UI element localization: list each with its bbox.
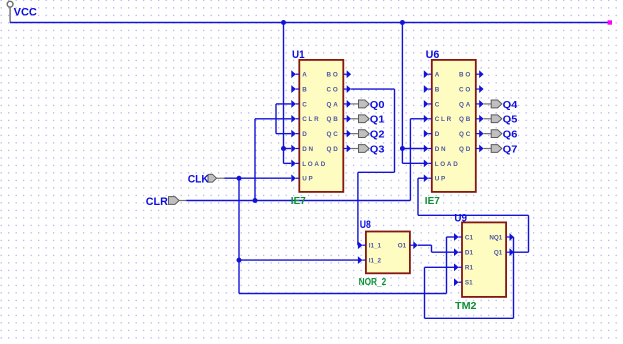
node Q0 terminal tag [351,100,369,108]
U6 pin DN [424,145,448,153]
svg-text:IE7: IE7 [425,196,440,207]
svg-text:U8: U8 [360,219,371,231]
svg-text:CLK: CLK [188,174,209,186]
node Q4 terminal tag [484,100,502,108]
U1 pin LOAD [291,159,327,167]
U6 pin C [424,100,441,108]
U1 pin QA [327,100,352,108]
svg-text:I1_2: I1_2 [369,258,382,265]
svg-text:Q0: Q0 [370,99,385,111]
wire VCC to U1 LOAD drop [283,149,285,164]
svg-text:LOAD: LOAD [302,161,327,168]
U6 pin LOAD [424,159,460,167]
wire CLR to U1 CLR stub [255,118,291,120]
node Q3 terminal tag [351,145,369,153]
svg-text:S1: S1 [465,280,473,287]
U9 pin Q1 [494,248,514,256]
U9 pin S1 [454,278,473,286]
wire VCC drop to U6 DN [401,23,403,149]
junction CLK to U8 I1_2 node [237,258,242,263]
U6 pin CO [459,85,484,93]
wire VCC to U6 LOAD stub [402,162,424,164]
wire CLR horizontal run [186,200,410,202]
svg-text:QA: QA [459,101,472,108]
svg-text:DN: DN [302,146,315,153]
U8 pin I1_2 [358,256,382,264]
svg-text:C: C [435,101,441,108]
U9 pin C1 [454,233,473,241]
junction VCC rail to U6 branch [400,20,405,25]
node Q7 terminal tag [484,145,502,153]
wire U9 Q1 out run [514,251,529,253]
U8 pin O1 [398,241,418,249]
label Q0 [370,99,385,111]
label Q6 [503,129,518,141]
svg-text:IE7: IE7 [291,196,306,207]
svg-text:QD: QD [459,146,472,153]
wire VCC to U6 DN stub [402,148,424,150]
U6 pin UP [424,174,447,182]
wire to U6 UP stub [418,177,424,179]
label VCC [14,7,37,19]
U1 pin D [291,130,308,138]
junction VCC rail to U1 branch [281,20,286,25]
svg-text:C: C [302,101,308,108]
label U8 [360,219,371,231]
svg-text:D: D [435,131,441,138]
wire U1 D stub [276,133,291,135]
U6 pin QC [459,130,484,138]
U6 pin QB [459,115,484,123]
value IE7 (U1) [291,196,306,207]
U6 pin QA [459,100,484,108]
U1 pin QB [327,115,352,123]
label Q2 [370,129,385,141]
wire U1 C-D tie vertical [275,104,277,134]
wire U1 CO out run [351,88,394,90]
U9 pin R1 [454,263,473,271]
wire CLR to U6 CLR stub [410,118,424,120]
wire to U9 R1 stub [425,266,455,268]
wire CLK vertical drop [238,178,240,293]
IC body U1 [299,60,343,192]
node Q2 terminal tag [351,130,369,138]
node Q5 terminal tag [484,115,502,123]
svg-text:I1_1: I1_1 [369,243,382,250]
svg-text:DN: DN [435,146,448,153]
svg-text:A: A [302,72,308,79]
wire O1-D1 jog [431,245,433,252]
U1 pin CO [327,85,352,93]
svg-text:BO: BO [459,72,472,79]
label Q1 [370,114,385,126]
U6 pin QD [459,145,484,153]
wire VCC to U6 LOAD drop [401,149,403,164]
wire CLK to U1 UP [224,177,291,179]
wire VCC rail [10,22,608,24]
value TM2 [455,301,477,312]
U1 pin DN [291,145,315,153]
svg-text:QB: QB [327,116,340,123]
svg-text:CO: CO [327,86,340,93]
U1 pin CLR [291,115,320,123]
svg-text:Q1: Q1 [494,250,503,257]
svg-text:NQ1: NQ1 [489,234,502,241]
input terminal CLK [208,174,225,182]
label U9 [454,213,467,225]
input terminal CLR [169,197,187,205]
svg-text:Q5: Q5 [503,114,518,126]
label Q3 [370,143,385,155]
label U1 [292,49,305,61]
svg-text:QB: QB [459,116,472,123]
label Q7 [503,143,518,155]
svg-text:CLR: CLR [146,196,168,208]
IC body U9 [462,222,506,297]
svg-text:QD: QD [327,146,340,153]
svg-text:U9: U9 [454,213,467,225]
svg-text:QC: QC [327,131,340,138]
label Q4 [503,99,518,111]
wire CLK riser to U9 C1 [446,237,448,294]
wire endpoint marker (dangling VCC rail end) [608,20,612,24]
svg-text:QA: QA [327,101,340,108]
wire CLK to U9 C1 stub [447,236,455,238]
wire CO net drop to U8 I1_1 [357,172,359,245]
wire U8 O1 out run [418,244,432,246]
svg-text:LOAD: LOAD [435,161,460,168]
U1 pin B [291,85,308,93]
wire NQ1 bottom run [425,317,514,319]
svg-text:QC: QC [459,131,472,138]
label Q5 [503,114,518,126]
U6 pin BO [459,70,484,78]
wire VCC to U1 LOAD stub [284,162,292,164]
svg-text:A: A [435,72,441,79]
svg-text:TM2: TM2 [455,301,477,312]
svg-text:O1: O1 [398,243,407,250]
svg-text:Q4: Q4 [503,99,518,111]
U6 pin A [424,70,441,78]
svg-text:C1: C1 [465,234,474,241]
svg-text:Q6: Q6 [503,129,518,141]
wire CO net left run [358,171,395,173]
svg-text:NOR_2: NOR_2 [359,277,387,288]
node Q1 terminal tag [351,115,369,123]
label U6 [426,49,440,61]
svg-text:CLR: CLR [302,116,320,123]
U1 pin UP [291,174,314,182]
svg-text:UP: UP [435,176,447,183]
junction U1 DN node [281,146,286,151]
wire VCC to U1 DN stub [284,148,292,150]
wire CLK to U8 I1_2 [239,259,358,261]
label CLR [146,196,168,208]
label CLK [188,174,209,186]
svg-text:BO: BO [327,72,340,79]
wire CLR riser to U1 [254,119,256,201]
wire Q1 top run [418,214,529,216]
svg-text:Q1: Q1 [370,114,385,126]
U1 pin A [291,70,308,78]
U1 pin BO [327,70,352,78]
svg-text:B: B [435,86,441,93]
power terminal VCC [7,1,13,22]
svg-text:D1: D1 [465,250,474,257]
U1 pin QD [327,145,352,153]
wire U1 C stub [276,103,291,105]
wire CLK bottom run [239,293,447,295]
U1 pin C [291,100,308,108]
junction U6 DN node [400,146,405,151]
svg-text:U6: U6 [426,49,440,61]
svg-text:CLR: CLR [435,116,453,123]
U6 pin B [424,85,441,93]
svg-text:U1: U1 [292,49,305,61]
wire NQ1 riser to R1 [424,267,426,318]
svg-text:Q7: Q7 [503,143,518,155]
svg-text:B: B [302,86,308,93]
svg-text:Q2: Q2 [370,129,385,141]
wire VCC drop to U1 DN [283,23,285,149]
svg-text:D: D [302,131,308,138]
svg-text:R1: R1 [465,265,474,272]
U6 pin D [424,130,441,138]
wire U9 NQ1 drop [513,237,515,318]
U9 pin NQ1 [489,233,514,241]
junction CLK branch node [237,176,242,181]
svg-text:VCC: VCC [14,7,37,19]
svg-text:Q3: Q3 [370,143,385,155]
svg-text:UP: UP [302,176,314,183]
junction CLR branch to U1 [253,198,258,203]
U6 pin CLR [424,115,453,123]
U8 pin I1_1 [358,241,382,249]
node Q6 terminal tag [484,130,502,138]
wire CO net drop [394,89,396,172]
value IE7 (U6) [425,196,440,207]
U9 pin D1 [454,248,473,256]
wire Q1 riser to U6 UP [417,178,419,215]
value NOR_2 [359,277,387,288]
U1 pin QC [327,130,352,138]
IC body U8 [366,232,410,274]
svg-text:CO: CO [459,86,472,93]
wire Q1 riser [528,215,530,252]
wire CLR riser to U6 [409,119,411,201]
IC body U6 [432,60,476,192]
wire to U9 D1 stub [432,251,455,253]
